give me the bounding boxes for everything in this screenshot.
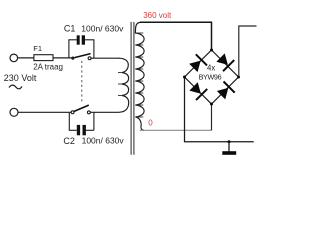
svg-text:100n/ 630v: 100n/ 630v: [82, 135, 125, 145]
ground: [222, 142, 236, 155]
node: bridge minus (left) junction: [183, 76, 186, 79]
bridge rectifier diamond frame: [185, 50, 239, 104]
mechanical link (dashed) between S1a and S1b: [81, 61, 83, 104]
diode D2 (top vertex to right vertex): [215, 52, 234, 71]
wire: secondary bottom (0) to bridge AC bottom node (gray): [140, 129, 212, 131]
transformer T1 secondary winding: [135, 22, 144, 130]
wire: S1b to transformer primary bottom: [90, 111, 119, 113]
wire: secondary top to bridge AC top node: [140, 22, 212, 50]
svg-text:BYW96: BYW96: [199, 72, 222, 81]
AC source symbol ~: [9, 85, 22, 89]
node: bridge AC bottom junction: [210, 103, 213, 106]
svg-text:360 volt: 360 volt: [143, 11, 172, 20]
transformer T1 primary winding: [119, 58, 129, 112]
svg-text:0: 0: [148, 118, 153, 127]
svg-text:C1: C1: [64, 23, 76, 33]
primary winding loop crossings: [118, 73, 122, 96]
node: bridge AC top junction: [210, 49, 213, 52]
svg-text:2A traag: 2A traag: [33, 62, 63, 71]
wire: S1a to transformer primary top: [90, 57, 119, 59]
svg-text:4x: 4x: [207, 64, 215, 73]
svg-text:C2: C2: [63, 136, 75, 146]
diode D3 (left vertex to bottom vertex): [188, 81, 207, 100]
wire: bridge AC bottom vertical: [211, 104, 213, 130]
terminal P2 (230V neutral): [10, 108, 18, 116]
diode D1 (left vertex to top vertex): [188, 54, 207, 73]
switch S1b: [71, 105, 90, 114]
fuse F1: [34, 55, 53, 61]
wire: P1 to fuse F1: [18, 57, 35, 59]
switch S1a: [71, 54, 91, 60]
wire: P2 to switch S1b: [18, 111, 71, 113]
capacitor C1: [68, 35, 94, 58]
diode D4 (bottom vertex to right vertex): [215, 82, 234, 101]
svg-text:230 Volt: 230 Volt: [4, 73, 37, 83]
node: ground rail junction: [228, 140, 231, 143]
wire: bridge plus output stub: [239, 26, 257, 77]
wire: bridge minus to ground rail: [185, 78, 254, 142]
secondary winding loop crossings: [136, 33, 144, 117]
svg-text:F1: F1: [33, 44, 42, 53]
capacitor C2: [69, 112, 94, 135]
terminal P1 (230V line): [10, 54, 18, 62]
wire: fuse F1 to switch S1a: [53, 57, 72, 59]
svg-text:100n/ 630v: 100n/ 630v: [81, 23, 124, 33]
transformer core: [130, 22, 132, 155]
node: bridge plus (right) junction: [237, 76, 240, 79]
